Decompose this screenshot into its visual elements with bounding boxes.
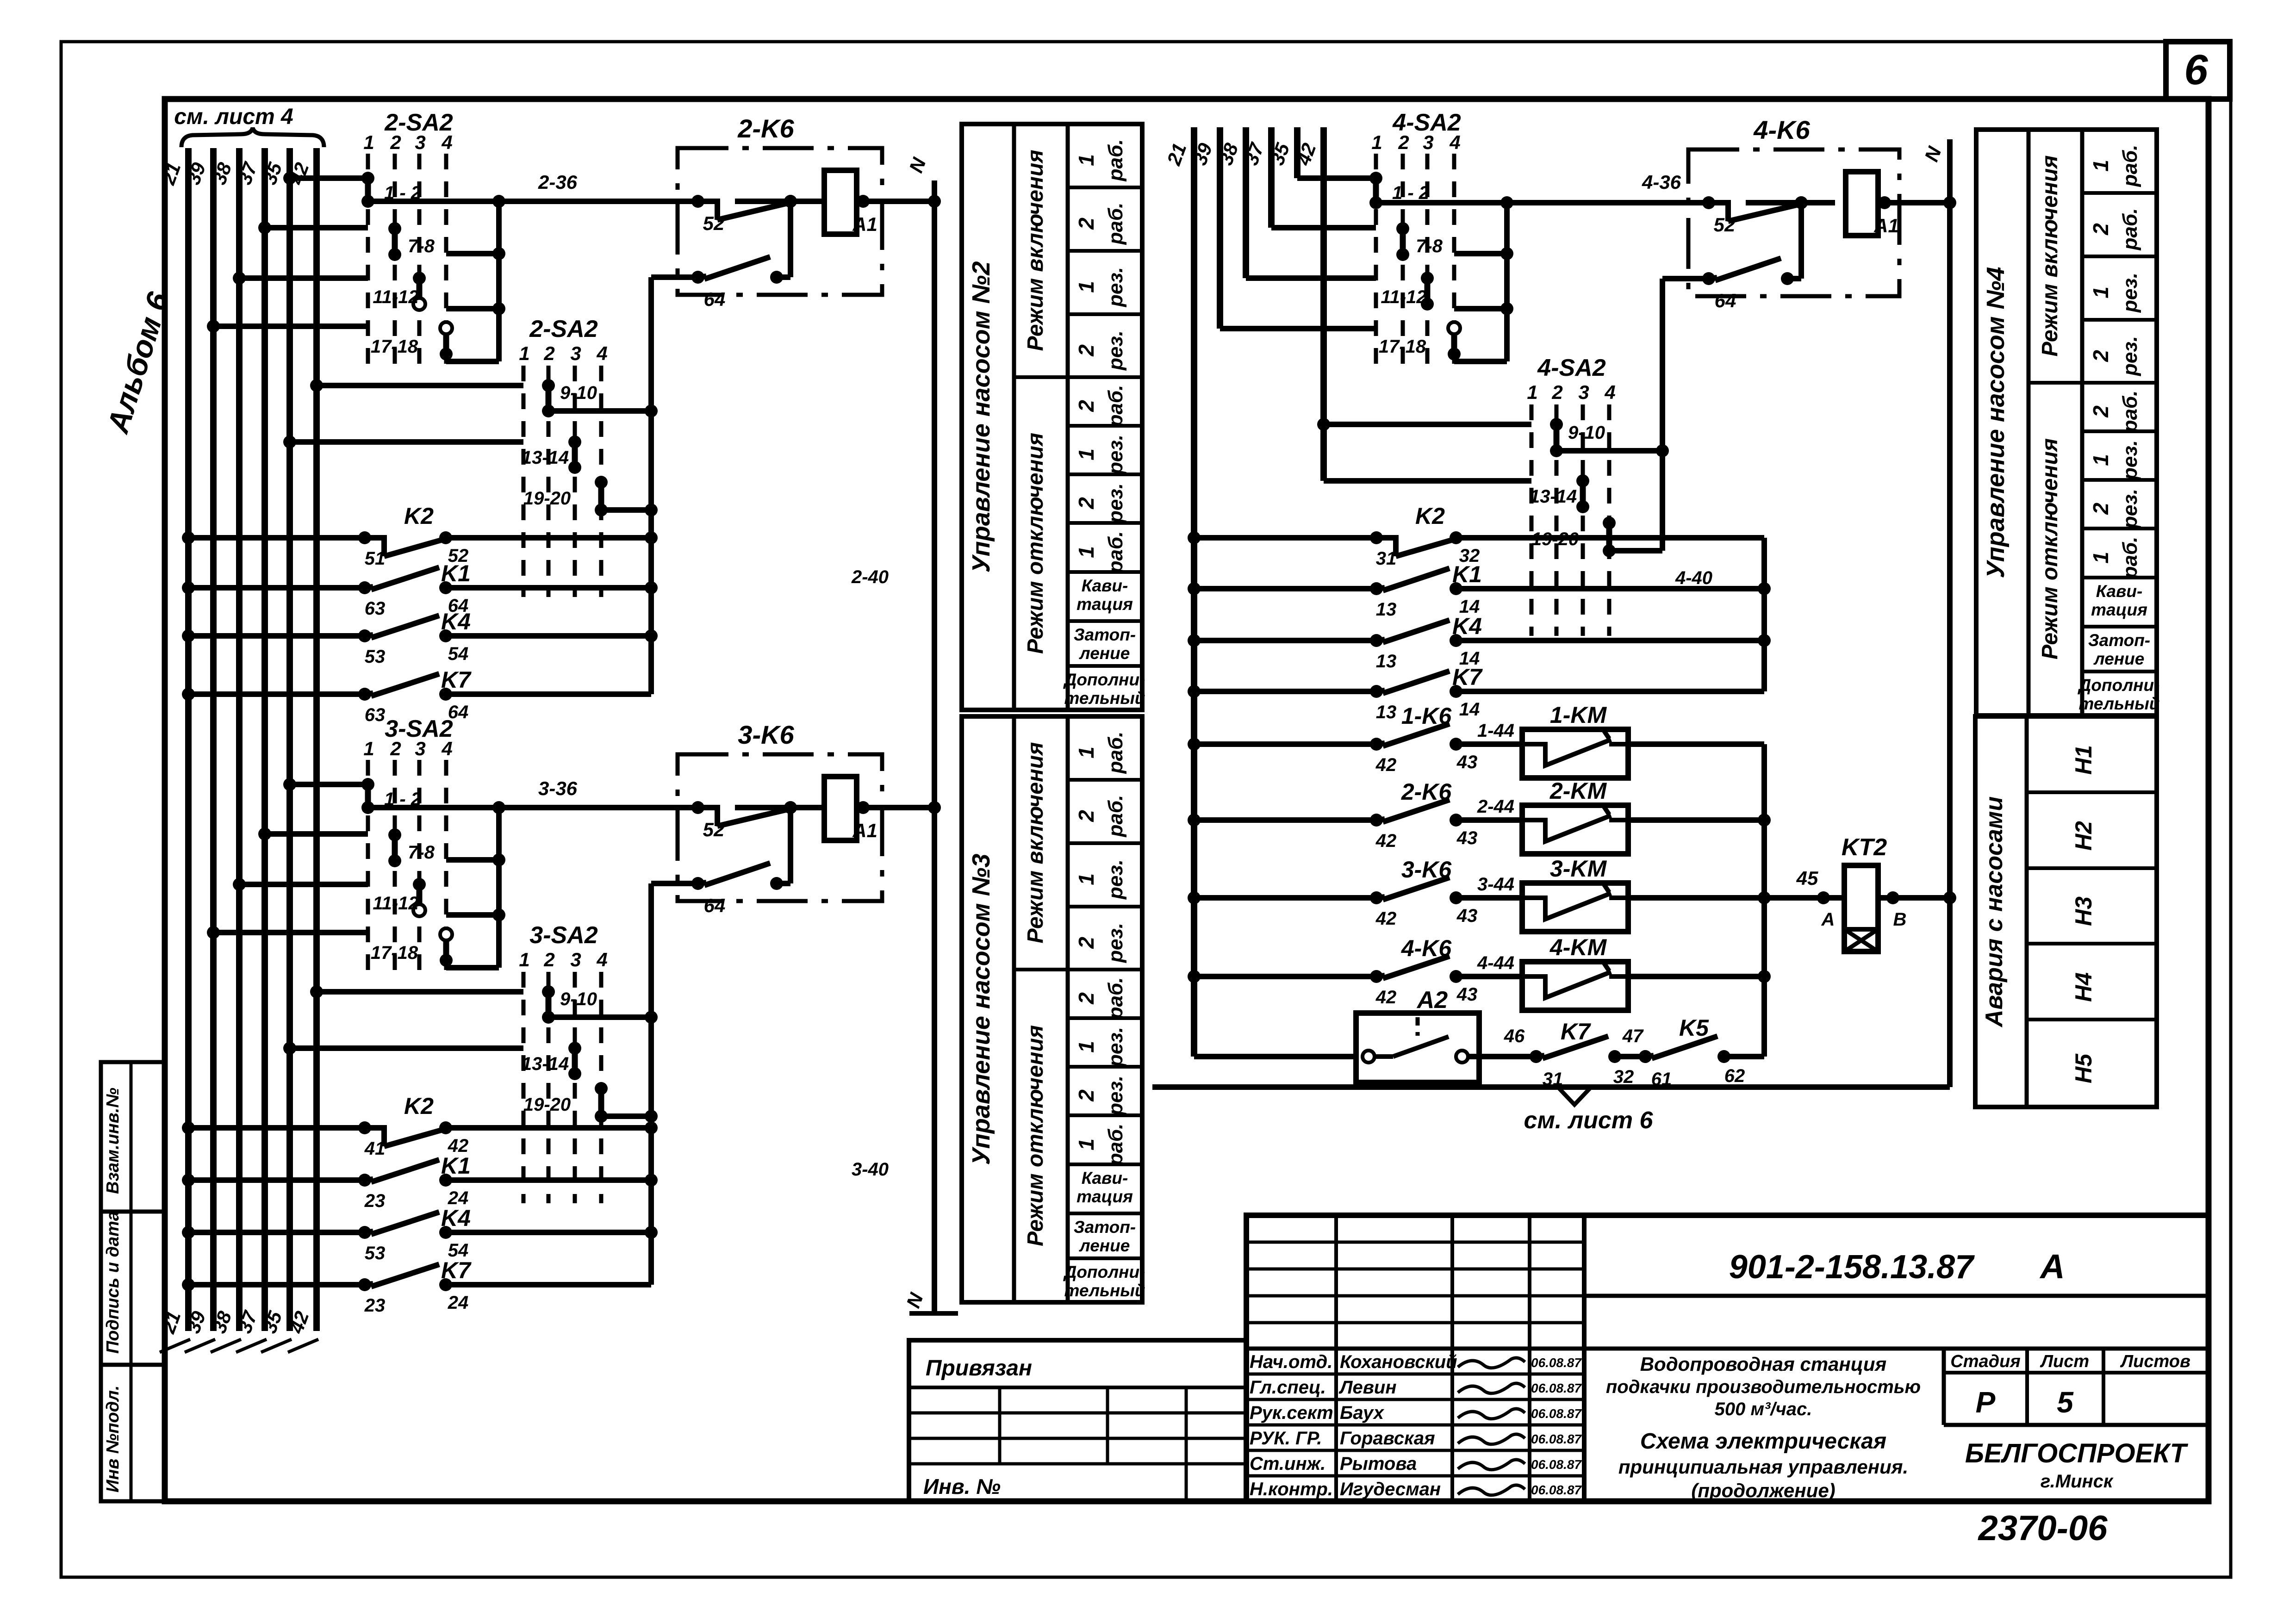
svg-text:Кави-: Кави-: [1082, 576, 1128, 595]
relay 4-K6 contact 64: [1709, 278, 1717, 279]
svg-text:рез.: рез.: [1104, 923, 1127, 963]
wire collector pump4 switch: [1660, 279, 1665, 551]
svg-text:63: 63: [365, 598, 386, 619]
wire to sheet 6: [1152, 1084, 1950, 1090]
svg-text:64: 64: [704, 288, 726, 310]
bus wire 21 left: [185, 148, 192, 1331]
wire collector pump3 contacts: [648, 883, 654, 1285]
svg-text:3: 3: [415, 131, 425, 153]
svg-text:2-K6: 2-K6: [1401, 779, 1452, 805]
contact K4 row: [188, 1230, 365, 1235]
svg-text:раб.: раб.: [2119, 537, 2141, 579]
svg-text:54: 54: [448, 644, 469, 664]
svg-text:42: 42: [1375, 831, 1397, 851]
svg-text:7-8: 7-8: [408, 842, 435, 863]
wire 64 to collector pump3: [651, 881, 698, 886]
svg-text:раб.: раб.: [2119, 391, 2141, 433]
svg-text:2-44: 2-44: [1477, 796, 1514, 817]
svg-text:Привязан: Привязан: [926, 1356, 1032, 1380]
svg-text:рез.: рез.: [1104, 859, 1127, 900]
svg-text:43: 43: [1456, 752, 1478, 772]
wire 64 to collector pump4: [1662, 276, 1709, 281]
bus wire 42 left: [313, 148, 320, 1331]
contact K7 row: [188, 1282, 365, 1287]
svg-text:4: 4: [441, 738, 452, 759]
sheet number box 6: [2166, 42, 2230, 99]
svg-text:Гл.спец.: Гл.спец.: [1250, 1377, 1326, 1398]
svg-text:Режим отключения: Режим отключения: [1023, 1025, 1048, 1246]
svg-text:Стадия: Стадия: [1950, 1352, 2020, 1371]
bus wire 39 left: [210, 148, 217, 1331]
svg-text:Н3: Н3: [2071, 896, 2097, 926]
wire tap bus39R row4: [1220, 326, 1376, 331]
wire stub 4-SA2 out row4: [1454, 359, 1507, 364]
svg-text:Ст.инж.: Ст.инж.: [1250, 1454, 1325, 1474]
svg-text:Управление насосом №4: Управление насосом №4: [1982, 267, 2010, 578]
svg-text:Управление насосом №3: Управление насосом №3: [967, 854, 995, 1165]
wire tap bus42R row 9-10: [1324, 422, 1531, 427]
svg-text:1: 1: [363, 738, 374, 759]
contactor 3-KM: [1522, 883, 1628, 932]
svg-text:1: 1: [1074, 546, 1098, 558]
svg-text:подкачки производительностью: подкачки производительностью: [1606, 1377, 1921, 1397]
svg-text:3-K6: 3-K6: [1401, 857, 1452, 883]
switch 2-SA2 contact 7-8: [392, 229, 398, 255]
wire tap bus39 to 2-SA2 row4: [213, 323, 368, 329]
svg-text:Рытова: Рытова: [1340, 1454, 1417, 1474]
svg-text:45: 45: [1796, 867, 1818, 889]
svg-text:4-40: 4-40: [1675, 568, 1712, 588]
svg-text:рез.: рез.: [1104, 435, 1127, 475]
svg-text:K4: K4: [441, 609, 471, 634]
switch 4-SA2 contact 7-8: [1400, 229, 1406, 255]
svg-text:Затоп-: Затоп-: [2088, 631, 2150, 650]
svg-text:19-20: 19-20: [523, 488, 571, 509]
wire tap bus37 to 2-SA2 row2: [265, 225, 368, 230]
svg-text:раб.: раб.: [1104, 795, 1127, 838]
wire 3-KM output: [1628, 895, 1764, 901]
relay 3-K6 internal wire: [788, 808, 793, 883]
svg-text:17-18: 17-18: [1379, 336, 1426, 357]
svg-text:06.08.87: 06.08.87: [1531, 1483, 1582, 1497]
svg-text:3: 3: [415, 738, 425, 759]
wire collector 3-SA2 outputs: [496, 808, 502, 968]
svg-text:2370-06: 2370-06: [1978, 1509, 2108, 1548]
svg-text:Н5: Н5: [2071, 1053, 2097, 1083]
svg-text:63: 63: [365, 705, 386, 725]
svg-text:32: 32: [1613, 1067, 1634, 1087]
wire bus21R to A2: [1194, 1054, 1356, 1059]
svg-text:K7: K7: [441, 667, 472, 693]
svg-text:1: 1: [1074, 1041, 1098, 1053]
svg-text:Водопроводная станция: Водопроводная станция: [1640, 1353, 1887, 1375]
svg-text:42: 42: [1375, 987, 1397, 1007]
svg-text:2: 2: [1551, 381, 1562, 403]
svg-text:2-SA2: 2-SA2: [529, 316, 597, 342]
svg-text:рез.: рез.: [1104, 330, 1127, 371]
title block stadia list listov header: [1942, 1349, 1946, 1425]
svg-text:2: 2: [543, 949, 554, 970]
switch 2-SA2 contact 19-20: [598, 482, 604, 510]
svg-text:1: 1: [1527, 381, 1537, 403]
svg-text:2: 2: [2089, 223, 2113, 236]
svg-text:рез.: рез.: [1104, 483, 1127, 523]
svg-text:Нач.отд.: Нач.отд.: [1250, 1352, 1332, 1372]
switch 2-SA2 contact 1-2: [365, 178, 371, 201]
svg-text:Кави-: Кави-: [2096, 582, 2143, 601]
svg-text:тация: тация: [1076, 1187, 1133, 1206]
svg-text:рез.: рез.: [2119, 489, 2141, 529]
relay 3-K6 enclosure: [678, 754, 882, 901]
stamp box inv n podl: [101, 1365, 165, 1501]
switch 4-SA2 contact 19-20: [1606, 523, 1612, 551]
svg-text:2-K6: 2-K6: [737, 114, 794, 143]
svg-text:19-20: 19-20: [523, 1094, 571, 1115]
table &#8470;2 split rezhim: [1014, 375, 1068, 379]
svg-text:43: 43: [1456, 906, 1478, 926]
svg-text:1: 1: [519, 342, 529, 364]
svg-text:A1: A1: [852, 820, 877, 841]
svg-text:Схема электрическая: Схема электрическая: [1640, 1429, 1886, 1454]
contactor 4-KM: [1522, 962, 1628, 1010]
svg-text:52: 52: [703, 819, 725, 840]
switch 2-SA2 block columns: [522, 366, 526, 597]
svg-text:6: 6: [2184, 46, 2208, 93]
table upravlenie nasosom &#8470;4 frame: [1976, 130, 2157, 715]
wire 2-36: [368, 199, 698, 204]
wire tap bus38R row3: [1246, 275, 1376, 281]
table avaria s nasosami frame: [1975, 716, 2157, 1107]
svg-text:2: 2: [1074, 218, 1098, 230]
svg-text:14: 14: [1459, 699, 1480, 720]
relay 4-K6 internal wire: [1798, 203, 1804, 279]
svg-text:1-44: 1-44: [1477, 721, 1514, 741]
contact K1 row: [188, 585, 365, 591]
svg-text:4: 4: [596, 949, 607, 970]
wire 1-KM output: [1628, 741, 1764, 747]
switch 3-SA2 contact 17-18: [443, 934, 449, 960]
svg-text:2: 2: [1074, 810, 1098, 822]
table upravlenie nasosom &#8470;2 frame: [962, 124, 1142, 710]
bus wire 21 right: [1191, 127, 1197, 1057]
svg-text:7-8: 7-8: [408, 236, 435, 256]
svg-text:Лист: Лист: [2040, 1352, 2089, 1371]
svg-text:06.08.87: 06.08.87: [1531, 1457, 1582, 1472]
svg-text:3-44: 3-44: [1477, 874, 1514, 895]
svg-text:Горавская: Горавская: [1340, 1428, 1435, 1449]
wire 47 node: [1615, 1054, 1645, 1059]
svg-text:13: 13: [1376, 651, 1397, 672]
svg-text:3: 3: [570, 342, 581, 364]
svg-text:раб.: раб.: [1104, 203, 1127, 245]
svg-text:2: 2: [1074, 497, 1098, 510]
svg-text:рез.: рез.: [1104, 1027, 1127, 1067]
contact 1-K6 42-43 row: [1194, 741, 1376, 747]
svg-text:раб.: раб.: [1104, 139, 1127, 182]
switch 4-SA2 contact 9-10: [1554, 424, 1560, 451]
svg-text:4-KM: 4-KM: [1549, 934, 1607, 960]
svg-text:K1: K1: [441, 560, 471, 586]
svg-text:2-KM: 2-KM: [1549, 778, 1607, 804]
svg-text:1: 1: [2089, 286, 2113, 298]
svg-text:31: 31: [1376, 548, 1397, 569]
svg-text:K2: K2: [1415, 503, 1445, 529]
svg-text:раб.: раб.: [1104, 977, 1127, 1020]
svg-text:13: 13: [1376, 599, 1397, 620]
bus wire 38 right: [1243, 127, 1249, 278]
svg-text:2: 2: [1074, 344, 1098, 357]
svg-text:1: 1: [363, 131, 374, 153]
switch 4-SA2 contact 17-18: [1451, 328, 1457, 354]
wire 64 to collector pump2: [651, 274, 698, 280]
svg-text:Подпись и дата: Подпись и дата: [103, 1211, 123, 1354]
switch 3-SA2 contact 1-2: [365, 784, 371, 808]
node N line pump4: [1947, 139, 1953, 1086]
svg-text:Инв №подл.: Инв №подл.: [103, 1386, 123, 1492]
svg-text:42: 42: [1375, 908, 1397, 929]
wire out 19-20 to collector pump4: [1609, 548, 1662, 553]
svg-text:Кохановский: Кохановский: [1340, 1352, 1457, 1372]
contact K4 row: [188, 633, 365, 639]
relay 2-K6 internal wire: [788, 201, 793, 277]
svg-text:Режим включения: Режим включения: [1023, 742, 1048, 943]
svg-text:(продолжение): (продолжение): [1691, 1480, 1835, 1501]
svg-text:тация: тация: [1076, 595, 1133, 614]
svg-text:Режим отключения: Режим отключения: [1023, 433, 1048, 654]
svg-text:рез.: рез.: [1104, 267, 1127, 307]
table &#8470;4 split rezhim: [2028, 381, 2082, 385]
svg-text:рез.: рез.: [2119, 336, 2141, 376]
wire 2-KM output: [1628, 817, 1764, 823]
svg-text:9-10: 9-10: [560, 383, 597, 403]
svg-text:23: 23: [364, 1191, 386, 1211]
switch A2: [1356, 1013, 1479, 1082]
wire 4-K6 to contactor: [1456, 974, 1522, 979]
wire tap bus42 to 3-SA2 row 9-10: [317, 989, 523, 995]
wire stub 2-SA2 out row2: [446, 251, 499, 256]
contact K5 61-62 avaria row: [1645, 1056, 1654, 1057]
svg-text:принципиальная управления.: принципиальная управления.: [1618, 1456, 1908, 1478]
svg-text:4: 4: [1449, 131, 1460, 153]
svg-text:2: 2: [543, 342, 554, 364]
wire tap bus35 to 3-SA2 row 13-14: [290, 1045, 523, 1051]
svg-text:1: 1: [1074, 1138, 1098, 1150]
svg-text:4: 4: [596, 342, 607, 364]
relay 3-K6 contact 52: [698, 808, 717, 826]
svg-text:раб.: раб.: [1104, 732, 1127, 774]
svg-text:3-K6: 3-K6: [738, 720, 794, 749]
svg-text:A1: A1: [1873, 215, 1899, 236]
svg-text:2: 2: [390, 738, 401, 759]
svg-text:см. лист 4: см. лист 4: [174, 105, 293, 129]
switch 2-SA2 contact 13-14: [572, 442, 578, 467]
svg-text:Инв. №: Инв. №: [923, 1474, 1001, 1499]
contact K1 row: [188, 1177, 365, 1183]
wire collector 2-SA2 outputs: [496, 201, 502, 361]
svg-text:52: 52: [1714, 214, 1736, 236]
wire tap bus37R row2: [1271, 225, 1376, 230]
svg-text:3-36: 3-36: [538, 777, 578, 799]
switch 2-SA2 contact 11-12: [417, 278, 423, 304]
relay 2-K6 contact 64: [698, 276, 706, 277]
svg-text:Н4: Н4: [2071, 972, 2097, 1002]
svg-text:Затоп-: Затоп-: [1074, 1218, 1136, 1237]
svg-text:9-10: 9-10: [1568, 423, 1605, 443]
svg-text:7-8: 7-8: [1416, 236, 1443, 256]
svg-text:3: 3: [1578, 381, 1589, 403]
wire stub 4-SA2 out row2: [1454, 251, 1507, 256]
wire tap bus39 to 3-SA2 row4: [213, 930, 368, 935]
switch 4-SA2 contact 1-2: [1373, 178, 1379, 203]
svg-text:тельный: тельный: [1064, 689, 1145, 708]
svg-text:9-10: 9-10: [560, 989, 597, 1009]
svg-text:17-18: 17-18: [371, 943, 418, 963]
svg-text:Рук.сект: Рук.сект: [1250, 1403, 1333, 1423]
svg-text:1-KM: 1-KM: [1550, 702, 1607, 728]
wire stub 3-SA2 out row2: [446, 857, 499, 863]
svg-text:4-K6: 4-K6: [1401, 935, 1452, 961]
svg-text:раб.: раб.: [1104, 1124, 1127, 1166]
note see sheet 6: [1559, 1088, 1590, 1105]
svg-text:Затоп-: Затоп-: [1074, 625, 1136, 644]
svg-text:Режим включения: Режим включения: [1023, 149, 1048, 351]
svg-text:2-40: 2-40: [851, 567, 889, 587]
wire out 9-10 to collector: [548, 408, 651, 414]
svg-text:1: 1: [1074, 746, 1098, 759]
svg-text:A1: A1: [852, 213, 877, 235]
svg-text:K4: K4: [441, 1205, 471, 1231]
svg-text:06.08.87: 06.08.87: [1531, 1406, 1582, 1421]
wire tap bus35 to 2-SA2 row 13-14: [290, 439, 523, 445]
svg-text:А: А: [2039, 1247, 2065, 1286]
wire out 19-20 to collector pump3: [601, 1113, 651, 1119]
svg-text:1: 1: [1074, 281, 1098, 293]
svg-text:Дополни-: Дополни-: [1063, 1262, 1145, 1281]
contact K4 row right: [1194, 638, 1376, 643]
svg-text:06.08.87: 06.08.87: [1531, 1432, 1582, 1446]
stamp box podpis i data: [101, 1212, 165, 1365]
svg-text:43: 43: [1456, 828, 1478, 848]
contact K7 row right: [1194, 689, 1376, 694]
switch 4-SA2 block columns: [1530, 404, 1534, 636]
switch 2-SA2 contact 17-18: [443, 328, 449, 354]
svg-text:4-44: 4-44: [1477, 953, 1514, 973]
bus wire 39 right: [1217, 127, 1223, 329]
svg-text:тация: тация: [2091, 600, 2147, 619]
svg-text:2: 2: [2089, 503, 2113, 515]
contact 2-K6 42-43 row: [1194, 817, 1376, 823]
switch 4-SA2 contact 11-12: [1425, 278, 1431, 304]
wire collector right upper: [1761, 538, 1767, 691]
contact 4-K6 42-43 row: [1194, 974, 1376, 979]
svg-text:3-KM: 3-KM: [1550, 856, 1607, 882]
switch 2-SA2 block columns: [366, 154, 370, 368]
switch 3-SA2 contact 11-12: [417, 884, 423, 910]
svg-text:Дополни-: Дополни-: [2078, 676, 2160, 695]
contact K2 row: [188, 1125, 365, 1131]
svg-text:тельный: тельный: [1064, 1281, 1145, 1300]
node N line pump2: [932, 180, 937, 1313]
svg-text:17-18: 17-18: [371, 336, 418, 357]
svg-text:53: 53: [365, 647, 386, 667]
wire KT2 to N: [1878, 895, 1950, 901]
svg-text:K4: K4: [1452, 613, 1482, 639]
contact K7 31-32 avaria row: [1536, 1056, 1544, 1057]
title block approval grid: [1246, 1241, 1584, 1244]
switch 3-SA2 block columns: [366, 760, 370, 974]
svg-text:2: 2: [1074, 937, 1098, 949]
svg-text:13-14: 13-14: [522, 1054, 569, 1074]
svg-text:5: 5: [2057, 1386, 2074, 1419]
svg-text:1: 1: [1371, 131, 1382, 153]
wire 4-36: [1376, 200, 1709, 205]
contact 3-K6 42-43 row: [1194, 895, 1376, 901]
svg-text:A2: A2: [1416, 987, 1448, 1014]
svg-text:K7: K7: [1561, 1019, 1591, 1045]
wire 4-KM output: [1628, 974, 1764, 979]
svg-text:23: 23: [364, 1295, 386, 1316]
svg-text:4-K6: 4-K6: [1753, 115, 1810, 144]
switch 3-SA2 block columns: [522, 972, 526, 1203]
svg-text:Авария с насосами: Авария с насосами: [1981, 796, 2008, 1028]
contact K7 row: [188, 691, 365, 697]
svg-text:2: 2: [390, 131, 401, 153]
svg-text:Взам.инв.№: Взам.инв.№: [103, 1088, 123, 1194]
switch 3-SA2 contact 13-14: [572, 1048, 578, 1074]
svg-text:K1: K1: [441, 1153, 471, 1179]
wire tap bus38 to 2-SA2 row3: [239, 275, 368, 281]
wire tap bus35 to 3-SA2 row1: [290, 782, 368, 787]
wire stub 4-SA2 out row3: [1454, 306, 1507, 311]
svg-text:46: 46: [1504, 1026, 1525, 1046]
svg-text:B: B: [1893, 909, 1907, 930]
svg-text:51: 51: [365, 548, 386, 569]
svg-text:см. лист 6: см. лист 6: [1524, 1107, 1654, 1134]
wire K5 to collector: [1724, 1054, 1764, 1059]
svg-text:рез.: рез.: [2119, 440, 2141, 480]
svg-text:11-12: 11-12: [373, 287, 418, 307]
svg-text:K2: K2: [404, 1093, 434, 1119]
svg-text:4-36: 4-36: [1642, 171, 1681, 193]
switch 3-SA2 contact 19-20: [598, 1088, 604, 1116]
switch 4-SA2 contact 13-14: [1580, 481, 1586, 507]
wire tap bus35 to 2-SA2 row1: [290, 175, 368, 181]
table &#8470;3 split rezhim: [1014, 968, 1068, 971]
svg-text:раб.: раб.: [1104, 531, 1127, 574]
svg-text:11-12: 11-12: [373, 893, 418, 914]
bus wire 37 right: [1268, 127, 1275, 228]
contact K2 row: [188, 535, 365, 541]
svg-text:13-14: 13-14: [522, 448, 569, 468]
svg-text:64: 64: [704, 895, 726, 916]
svg-text:13-14: 13-14: [1530, 486, 1577, 507]
svg-text:Левин: Левин: [1338, 1377, 1396, 1398]
svg-text:11-12: 11-12: [1381, 287, 1426, 307]
title block doc number cell: [1584, 1294, 2209, 1298]
svg-text:13: 13: [1376, 702, 1397, 722]
svg-text:Баух: Баух: [1340, 1403, 1385, 1423]
svg-text:РУК. ГР.: РУК. ГР.: [1250, 1428, 1322, 1449]
bus wire 42 right: [1320, 127, 1327, 481]
bus wire 37 left: [261, 148, 268, 1331]
wire 45 to KT2: [1764, 895, 1844, 901]
svg-text:K1: K1: [1452, 561, 1482, 587]
svg-text:52: 52: [703, 212, 725, 234]
svg-text:1: 1: [1074, 448, 1098, 460]
svg-text:тельный: тельный: [2079, 694, 2160, 713]
svg-text:500 м³/час.: 500 м³/час.: [1715, 1399, 1812, 1419]
switch 4-SA2 block columns: [1374, 154, 1378, 368]
